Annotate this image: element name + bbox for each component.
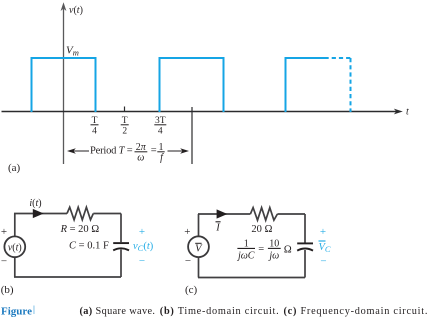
- svg-text:I: I: [215, 223, 220, 234]
- wire top right (b): [93, 213, 121, 215]
- impedance label 1/jwC = 10/jw ohm: [236, 239, 292, 262]
- wire bottom (c): [198, 277, 305, 279]
- source label V bar: [195, 243, 203, 254]
- current arrow i(t): [33, 209, 44, 218]
- y-axis v(t): [61, 2, 67, 164]
- period boundary line at T: [191, 107, 193, 164]
- current arrow I bar: [217, 209, 228, 218]
- svg-text:Figure: Figure: [1, 306, 32, 318]
- x-axis t: [2, 109, 403, 115]
- svg-text:(c): (c): [185, 284, 198, 296]
- wire left (c): [198, 214, 200, 278]
- svg-text:i(t): i(t): [29, 198, 41, 209]
- svg-text:4: 4: [158, 127, 163, 137]
- svg-text:(a): (a): [8, 162, 21, 174]
- svg-text:(b): (b): [1, 284, 14, 296]
- square wave pulse 2: [160, 58, 224, 112]
- capacitor (c): [297, 243, 313, 250]
- wire right (c): [304, 214, 306, 278]
- svg-text:R = 20 Ω: R = 20 Ω: [60, 224, 100, 235]
- caption figure number fragment: [33, 306, 35, 315]
- wire top right (c): [277, 213, 305, 215]
- svg-text:VC: VC: [319, 242, 331, 254]
- svg-text:v(t): v(t): [69, 5, 83, 16]
- label 3T/4: [154, 116, 166, 137]
- svg-text:jωC: jωC: [236, 250, 255, 261]
- svg-text:−: −: [139, 255, 145, 267]
- wire bottom (b): [14, 276, 121, 278]
- svg-text:Period T =: Period T =: [90, 146, 133, 157]
- svg-text:+: +: [1, 226, 7, 238]
- period annotation arrows and text: [67, 142, 189, 164]
- svg-text:−: −: [185, 255, 191, 267]
- svg-text:(c) Frequency-domain circuit.: (c) Frequency-domain circuit.: [284, 306, 429, 317]
- source v(t): [4, 236, 25, 257]
- wire right (b): [120, 214, 122, 278]
- svg-text:Ω: Ω: [284, 245, 292, 256]
- svg-text:20 Ω: 20 Ω: [251, 224, 272, 235]
- svg-text:jω: jω: [267, 250, 279, 261]
- svg-text:+: +: [184, 226, 190, 238]
- label I bar: [215, 222, 220, 234]
- svg-text:+: +: [139, 226, 145, 238]
- source V phasor: [188, 236, 209, 257]
- svg-text:t: t: [406, 107, 409, 118]
- svg-text:+: +: [320, 226, 326, 238]
- svg-text:=: =: [151, 146, 157, 157]
- square wave pulse 3 (dashed right part): [286, 58, 351, 112]
- svg-text:=: =: [258, 244, 264, 255]
- svg-text:(a) Square wave.: (a) Square wave.: [80, 306, 156, 317]
- resistor 20 ohm (c): [250, 208, 277, 221]
- square wave pulse 1: [32, 58, 96, 112]
- label T/4: [91, 116, 99, 137]
- svg-text:−: −: [320, 256, 326, 268]
- svg-text:−: −: [1, 256, 7, 268]
- svg-text:C = 0.1 F: C = 0.1 F: [69, 240, 109, 251]
- svg-text:v(t): v(t): [8, 242, 22, 253]
- svg-text:vC(t): vC(t): [133, 241, 154, 253]
- svg-text:(b) Time-domain circuit.: (b) Time-domain circuit.: [160, 306, 280, 317]
- svg-text:2: 2: [122, 127, 127, 137]
- svg-text:ω: ω: [137, 153, 144, 164]
- resistor R: [67, 207, 93, 220]
- wire left (b): [14, 214, 16, 278]
- wire top (b): [14, 213, 67, 215]
- capacitor C: [113, 243, 129, 250]
- wire top (c): [198, 213, 250, 215]
- svg-text:4: 4: [92, 127, 97, 137]
- label T/2: [121, 116, 129, 137]
- label VC bar: [319, 241, 331, 254]
- tick T/2: [124, 107, 126, 112]
